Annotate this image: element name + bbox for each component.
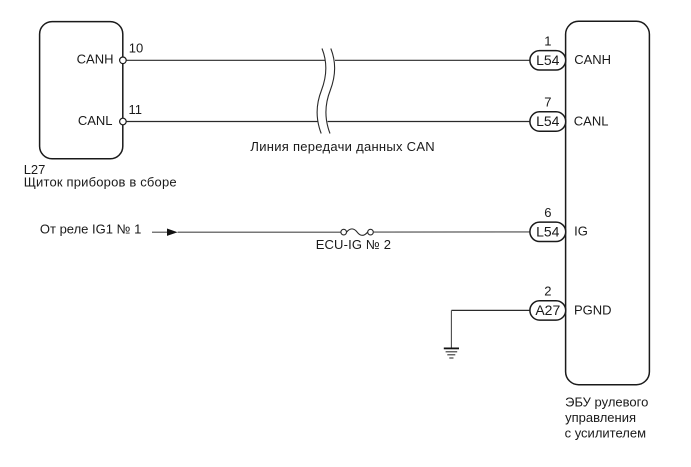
arrow tail wire	[152, 231, 168, 233]
svg-text:A27: A27	[535, 302, 560, 318]
svg-text:ECU-IG № 2: ECU-IG № 2	[316, 237, 391, 252]
svg-text:CANH: CANH	[77, 52, 114, 67]
svg-text:L54: L54	[536, 113, 560, 129]
svg-text:CANH: CANH	[574, 52, 611, 67]
svg-text:7: 7	[544, 95, 551, 110]
wire fuse to pin 6	[373, 231, 530, 233]
svg-text:Линия передачи данных CAN: Линия передачи данных CAN	[250, 139, 435, 154]
svg-text:с усилителем: с усилителем	[565, 426, 646, 441]
svg-text:11: 11	[129, 102, 143, 117]
svg-text:управления: управления	[565, 410, 636, 425]
fuse ECU-IG № 2 right circle	[368, 229, 374, 235]
fuse ECU-IG № 2 left circle	[341, 229, 347, 235]
connector oval A27 pin 2	[530, 301, 566, 320]
wire IG from arrow to fuse	[178, 231, 341, 233]
wire CANL right segment	[328, 121, 531, 123]
instrument cluster block L27	[40, 22, 123, 159]
svg-text:L54: L54	[536, 224, 560, 240]
wire CANL left segment	[126, 121, 318, 123]
arrow head	[167, 229, 178, 236]
wire CANH right segment	[335, 59, 530, 61]
connector oval L54 pin 6	[530, 222, 566, 241]
svg-text:2: 2	[544, 284, 551, 299]
cable break wave 2	[326, 49, 335, 134]
ground symbol	[444, 348, 459, 358]
svg-text:Щиток приборов в сборе: Щиток приборов в сборе	[24, 174, 177, 189]
svg-text:CANL: CANL	[78, 113, 113, 128]
svg-text:От реле IG1 № 1: От реле IG1 № 1	[40, 222, 141, 237]
wire PGND horizontal	[451, 309, 530, 311]
svg-text:1: 1	[544, 33, 551, 48]
svg-text:PGND: PGND	[574, 302, 612, 317]
svg-text:10: 10	[129, 40, 143, 55]
wire CANH left segment	[126, 59, 325, 61]
connector oval L54 pin 7	[530, 112, 566, 131]
wire PGND vertical stem	[450, 310, 452, 348]
pin 10 terminal circle	[120, 57, 127, 64]
svg-text:CANL: CANL	[574, 113, 609, 128]
pin 11 terminal circle	[120, 118, 127, 125]
fuse element wave	[347, 229, 368, 235]
svg-text:IG: IG	[574, 224, 588, 239]
connector oval L54 pin 1	[530, 51, 566, 70]
svg-text:6: 6	[544, 205, 551, 220]
power steering ECU block	[566, 21, 650, 384]
svg-text:ЭБУ рулевого: ЭБУ рулевого	[565, 394, 648, 409]
svg-text:L54: L54	[536, 52, 560, 68]
cable break wave 1	[317, 49, 326, 134]
